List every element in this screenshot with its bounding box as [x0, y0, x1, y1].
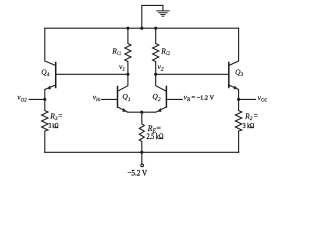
- node top rail RC2: [154, 27, 157, 30]
- svg-text:Q4: Q4: [41, 68, 49, 79]
- svg-text:=: =: [58, 111, 62, 120]
- resistor R3: [42, 99, 48, 152]
- svg-text:Q3: Q3: [235, 68, 243, 79]
- wire bottom rail: [45, 151, 239, 153]
- supply terminal circle: [141, 164, 144, 167]
- svg-text:RC2: RC2: [160, 47, 170, 58]
- supply terminal -5.2V stub: [141, 152, 143, 164]
- wire node v1 to Q4 base: [56, 73, 128, 75]
- node vO1: [237, 98, 240, 101]
- resistor RE: [139, 112, 144, 152]
- svg-text:3 kΩ: 3 kΩ: [243, 121, 255, 130]
- svg-text:−5.2 V: −5.2 V: [127, 167, 147, 177]
- wire ground branch riser: [142, 5, 163, 28]
- resistor RC1: [125, 28, 131, 74]
- wire node v2 to Q3 base: [156, 73, 229, 75]
- svg-text:vin: vin: [93, 92, 101, 103]
- svg-text:RC1: RC1: [111, 47, 121, 58]
- svg-text:vR: vR: [184, 93, 191, 104]
- wire top supply rail: [45, 27, 239, 29]
- svg-text:v1: v1: [119, 62, 125, 73]
- wire common emitter join: [128, 111, 156, 113]
- svg-text:vO2: vO2: [17, 93, 27, 104]
- ground: [157, 11, 170, 16]
- node v2: [154, 73, 157, 76]
- svg-text:3 kΩ: 3 kΩ: [49, 121, 59, 130]
- transistor Q4: [45, 28, 56, 99]
- svg-text:Q1: Q1: [122, 92, 130, 103]
- node bottom rail: [140, 151, 143, 154]
- svg-text:v2: v2: [158, 62, 164, 73]
- svg-text:= −1.2 V: = −1.2 V: [192, 95, 215, 102]
- node top rail center: [140, 27, 143, 30]
- resistor RC2: [153, 28, 159, 74]
- node vO2: [43, 98, 46, 101]
- svg-text:vO1: vO1: [258, 93, 268, 104]
- node top rail RC1: [126, 27, 129, 30]
- wire vR lead: [166, 98, 182, 100]
- wire vO1 lead: [239, 98, 256, 100]
- transistor Q3: [229, 28, 239, 99]
- svg-text:Q2: Q2: [152, 92, 160, 103]
- node v1: [126, 73, 129, 76]
- svg-text:=: =: [254, 111, 258, 120]
- node common emitter: [140, 111, 143, 114]
- wire vO2 lead: [29, 98, 45, 100]
- resistor R2: [235, 99, 241, 152]
- transistor Q2: [156, 74, 167, 112]
- svg-text:2.5 kΩ: 2.5 kΩ: [147, 132, 164, 141]
- wire vin lead: [102, 98, 118, 100]
- transistor Q1: [118, 74, 128, 112]
